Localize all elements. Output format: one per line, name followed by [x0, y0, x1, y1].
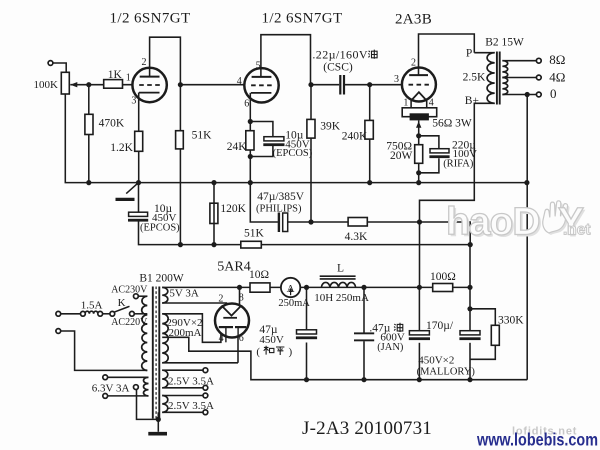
svg-text:8: 8 [239, 293, 244, 304]
svg-text:51K: 51K [192, 129, 213, 141]
svg-text:AC220V: AC220V [111, 317, 148, 328]
svg-text:1K: 1K [108, 69, 123, 81]
svg-text:100K: 100K [34, 79, 59, 91]
svg-text:450V×2: 450V×2 [418, 355, 454, 367]
svg-text:J-2A3 20100731: J-2A3 20100731 [302, 418, 432, 439]
svg-text:2.5V 3.5A: 2.5V 3.5A [168, 400, 214, 412]
svg-text:2: 2 [142, 57, 147, 68]
svg-text:L: L [337, 263, 344, 275]
svg-text:(EPCOS): (EPCOS) [140, 223, 180, 234]
svg-text:120K: 120K [220, 203, 246, 215]
svg-text:2: 2 [411, 58, 416, 69]
svg-text:B+: B+ [465, 95, 479, 107]
svg-text:2A3B: 2A3B [395, 11, 432, 27]
svg-text:170µ/: 170µ/ [426, 320, 454, 332]
svg-text:3: 3 [394, 74, 399, 85]
svg-text:B1 200W: B1 200W [139, 273, 184, 285]
svg-text:4.3K: 4.3K [345, 231, 368, 243]
svg-text:10H 250mA: 10H 250mA [314, 292, 369, 304]
svg-text:(RIFA): (RIFA) [443, 159, 474, 170]
svg-text:5V 3A: 5V 3A [169, 288, 198, 300]
svg-text:(: ( [256, 346, 260, 358]
svg-text:.net: .net [563, 222, 591, 239]
svg-text:www.lobebis.com: www.lobebis.com [476, 430, 598, 450]
svg-text:): ) [289, 346, 293, 358]
svg-text:(MALLORY): (MALLORY) [417, 366, 476, 377]
svg-text:39K: 39K [320, 121, 341, 133]
svg-text:1.5A: 1.5A [81, 300, 103, 312]
svg-text:(PHILIPS): (PHILIPS) [256, 204, 302, 215]
svg-text:20W: 20W [390, 150, 413, 162]
svg-text:4: 4 [219, 333, 224, 344]
svg-text:K: K [118, 297, 126, 309]
svg-text:1: 1 [403, 98, 408, 109]
svg-text:AC230V: AC230V [111, 285, 148, 296]
svg-text:240K: 240K [342, 131, 368, 143]
svg-text:5AR4: 5AR4 [217, 260, 250, 275]
svg-text:470K: 470K [99, 118, 125, 130]
svg-text:6: 6 [239, 333, 244, 344]
svg-text:51K: 51K [244, 228, 265, 240]
svg-text:3: 3 [131, 96, 136, 107]
svg-text:56Ω 3W: 56Ω 3W [432, 118, 472, 130]
svg-text:330K: 330K [498, 315, 524, 327]
svg-text:6.3V 3A: 6.3V 3A [92, 383, 130, 395]
svg-text:1/2 6SN7GT: 1/2 6SN7GT [262, 11, 343, 27]
svg-text:2.5V 3.5A: 2.5V 3.5A [168, 376, 214, 388]
svg-text:200mA: 200mA [169, 327, 202, 339]
svg-text:2.5K: 2.5K [463, 72, 486, 84]
svg-text:.22µ/160V: .22µ/160V [312, 48, 368, 62]
svg-text:100Ω: 100Ω [430, 271, 456, 283]
svg-text:B2 15W: B2 15W [485, 37, 524, 49]
svg-text:24K: 24K [227, 141, 248, 153]
svg-text:4: 4 [237, 76, 242, 87]
svg-text:47µ/385V: 47µ/385V [257, 191, 305, 203]
svg-text:P: P [466, 48, 472, 60]
svg-text:10Ω: 10Ω [249, 269, 269, 281]
svg-text:8Ω: 8Ω [549, 52, 565, 67]
svg-text:haoD: haoD [446, 201, 540, 244]
svg-text:6: 6 [244, 99, 249, 110]
svg-text:(EPCOS): (EPCOS) [273, 148, 313, 159]
svg-text:1/2 6SN7GT: 1/2 6SN7GT [110, 11, 191, 27]
svg-text:4: 4 [429, 98, 434, 109]
svg-text:4Ω: 4Ω [549, 70, 565, 85]
svg-text:0: 0 [550, 86, 557, 101]
svg-text:(CSC): (CSC) [323, 61, 353, 73]
svg-text:5: 5 [256, 61, 261, 72]
svg-text:250mA: 250mA [278, 298, 310, 309]
svg-text:1.2K: 1.2K [110, 142, 133, 154]
svg-text:2: 2 [218, 294, 223, 305]
svg-text:450V: 450V [259, 334, 284, 346]
svg-text:(JAN): (JAN) [377, 342, 404, 353]
svg-text:1: 1 [126, 73, 131, 84]
